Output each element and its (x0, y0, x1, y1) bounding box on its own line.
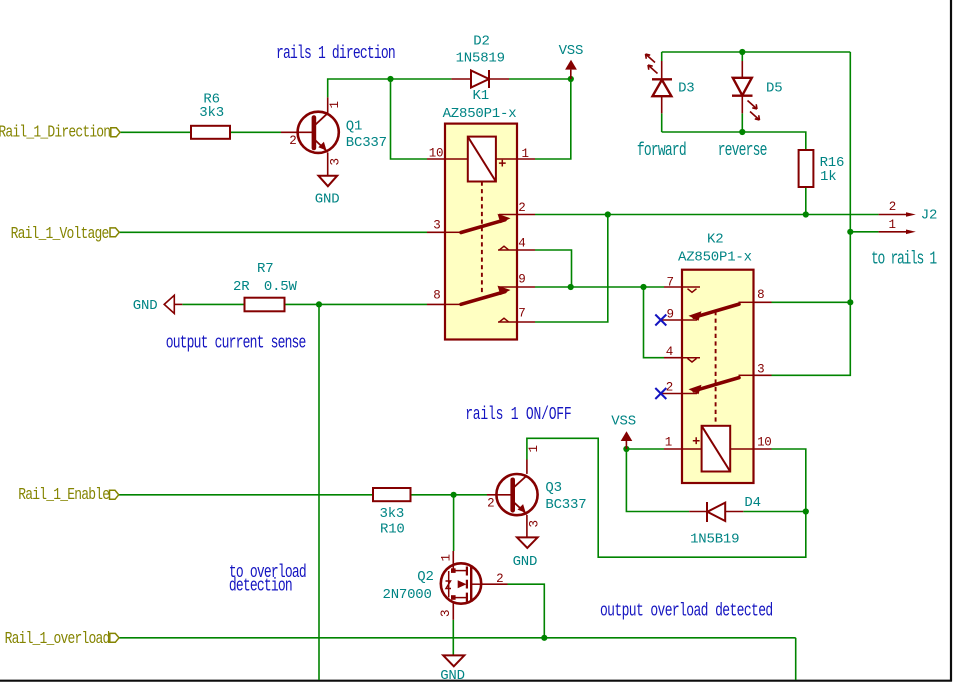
wire VSS2 node down to D4 (626, 449, 689, 512)
svg-text:3k3: 3k3 (380, 506, 405, 522)
svg-text:forward: forward (637, 140, 686, 161)
svg-text:output overload detected: output overload detected (600, 600, 773, 621)
sheet border bottom (0, 680, 952, 682)
svg-text:output current sense: output current sense (166, 332, 306, 353)
svg-text:J2: J2 (921, 208, 937, 224)
wire K1 pin9 row to K2 pin7 (535, 286, 664, 288)
svg-text:Rail_1_Voltage: Rail_1_Voltage (11, 223, 110, 243)
K2 pin stubs (664, 286, 682, 288)
global label Rail_1_Voltage (11, 223, 120, 243)
junction pin2 row at R16 (803, 211, 809, 217)
power flag VSS top (559, 43, 584, 79)
sheet border right (950, 0, 952, 682)
wire K1 pin7 up to pin2 row (535, 215, 608, 323)
connector J2 (879, 200, 938, 234)
transistor Q2 2N7000 (383, 551, 508, 620)
ground at Q3 (517, 537, 538, 548)
junction pin9 row at 643 (640, 284, 646, 290)
global label Rail_1_overload (5, 628, 119, 648)
svg-text:0.5W: 0.5W (264, 279, 298, 295)
svg-text:Q2: Q2 (417, 569, 433, 585)
svg-text:2: 2 (518, 201, 525, 215)
svg-text:D2: D2 (473, 34, 489, 50)
svg-text:to rails 1: to rails 1 (871, 249, 937, 270)
svg-text:AZ850P1-x: AZ850P1-x (678, 250, 752, 266)
wire R10 to Q3 base (411, 494, 488, 496)
junction enable node (451, 492, 457, 498)
wire Q2 source to GND (452, 620, 454, 656)
svg-text:4: 4 (518, 237, 525, 251)
svg-text:K2: K2 (707, 232, 723, 248)
svg-text:AZ850P1-x: AZ850P1-x (443, 106, 517, 122)
wire current sense down to sheet edge (318, 304, 320, 680)
wire J2 pin1 stub (850, 231, 878, 233)
svg-text:1: 1 (328, 101, 342, 108)
svg-text:Rail_1_Direction: Rail_1_Direction (0, 122, 110, 142)
svg-text:rails 1 direction: rails 1 direction (276, 43, 395, 64)
wire enable node down to Q2 drain (453, 495, 455, 551)
K1 contact pin7 (500, 318, 509, 322)
svg-text:1: 1 (522, 147, 529, 161)
svg-text:1: 1 (889, 218, 896, 232)
svg-text:3: 3 (433, 218, 440, 232)
wire Rail_1_Voltage to K1 pin3 (119, 231, 427, 233)
K1 contact pin4 (500, 246, 509, 250)
svg-text:1: 1 (665, 436, 672, 450)
junction VSS node (568, 76, 574, 82)
ground at Q2 (443, 655, 464, 666)
ground at Q1 (319, 176, 338, 187)
transistor Q3 (487, 445, 586, 537)
svg-text:4: 4 (666, 345, 673, 359)
global label Rail_1_Enable (18, 484, 118, 504)
svg-text:Rail_1_overload: Rail_1_overload (5, 628, 110, 648)
K1 inner pin lines (445, 231, 461, 233)
wire K2 pin7 node down to K2 pin4 (644, 287, 665, 358)
wire Q1 collector up and right (328, 79, 452, 97)
power flag VSS bottom (611, 413, 636, 449)
wire K1 pin4 down to pin9 row (535, 250, 572, 287)
K2 contact pin4 (688, 358, 697, 362)
no-connect X at K2 pin9 (655, 315, 666, 326)
wire K2 pin8 to right bus (772, 301, 851, 303)
LED D5 (732, 61, 782, 120)
svg-text:3: 3 (329, 158, 343, 165)
K2 contact pin7 (688, 289, 697, 293)
diode D4 (689, 495, 761, 547)
svg-text:rails 1 ON/OFF: rails 1 ON/OFF (465, 404, 571, 425)
svg-text:R7: R7 (257, 261, 273, 277)
resistor R10 (373, 488, 411, 501)
svg-text:8: 8 (433, 289, 440, 303)
svg-text:1: 1 (440, 554, 454, 561)
wire Q3 collector loop to K2 pin10 (527, 438, 806, 557)
svg-text:1N5B19: 1N5B19 (690, 532, 739, 548)
wire R16 bottom to pin2 row (805, 187, 807, 215)
wire LED bottom rail to R16 (662, 132, 806, 150)
no-connect X at K2 pin2 (655, 388, 666, 399)
transistor Q1 (281, 97, 387, 175)
wire D5 top stub (741, 52, 743, 61)
svg-text:D3: D3 (678, 80, 694, 96)
K1 mechanical dashed link (481, 182, 483, 295)
wire K2 pin10 down to D4 node (772, 449, 806, 512)
global label Rail_1_Direction (0, 122, 120, 142)
K1 coil (468, 137, 496, 182)
K2 mechanical dashed link (715, 311, 717, 426)
wire Rail_1_Direction to R6 (120, 131, 191, 133)
svg-text:GND: GND (513, 554, 538, 570)
wire D3 bottom stub (661, 113, 663, 132)
svg-text:detection: detection (229, 576, 292, 597)
svg-text:3k3: 3k3 (199, 105, 224, 121)
wire GND flag to R7 (182, 303, 244, 305)
svg-text:1: 1 (527, 445, 541, 452)
svg-text:2R: 2R (233, 279, 250, 295)
svg-text:2: 2 (889, 200, 896, 214)
wire overload down to sheet edge (795, 638, 797, 680)
K2 switch arm 2 (694, 378, 739, 391)
junction D4 node (803, 508, 809, 514)
junction pin9 row at 570 (568, 284, 574, 290)
svg-text:Rail_1_Enable: Rail_1_Enable (18, 484, 110, 504)
svg-text:2: 2 (289, 134, 296, 148)
wire K1 pin2 row to J2 pin2 (535, 214, 879, 216)
svg-text:9: 9 (666, 308, 673, 322)
relay K1 AZ850P1-x (427, 88, 535, 340)
K2 inner pin lines (682, 286, 700, 288)
svg-text:D4: D4 (744, 495, 760, 511)
svg-text:Q1: Q1 (346, 118, 362, 134)
svg-text:D5: D5 (766, 81, 782, 97)
wire D2 to VSS node (509, 78, 571, 80)
svg-text:9: 9 (518, 272, 525, 286)
svg-text:10: 10 (429, 147, 443, 161)
diode D2 (451, 34, 509, 89)
svg-text:VSS: VSS (559, 43, 584, 59)
wire right bus down to K2 pin3 (772, 52, 851, 375)
resistor R16 (799, 150, 814, 187)
svg-text:8: 8 (757, 288, 764, 302)
wire Q2 pin2 down to overload row (508, 584, 545, 638)
svg-text:reverse: reverse (718, 140, 767, 161)
svg-text:1k: 1k (820, 169, 836, 185)
wire D3 top stub (661, 52, 663, 61)
svg-text:1N5819: 1N5819 (456, 50, 505, 66)
junction overload node (541, 635, 547, 641)
svg-text:GND: GND (133, 298, 158, 314)
K1 pin stubs (427, 158, 445, 160)
junction current sense node (316, 301, 322, 307)
wire Rail_1_overload row (119, 637, 796, 639)
wire D5 bottom stub (741, 113, 743, 132)
junction right bus at J2 pin1 (847, 229, 853, 235)
svg-text:BC337: BC337 (346, 135, 387, 151)
wire D4 to right loop (743, 511, 806, 513)
svg-text:3: 3 (528, 520, 542, 527)
junction pin2 row at 607 (605, 211, 611, 217)
svg-text:BC337: BC337 (545, 497, 586, 513)
svg-text:3: 3 (757, 362, 764, 376)
junction VSS2 node (623, 446, 629, 452)
svg-text:Q3: Q3 (545, 480, 561, 496)
svg-text:2: 2 (487, 496, 494, 510)
svg-text:7: 7 (666, 275, 673, 289)
resistor R6 (191, 126, 230, 139)
junction LED top at D5 (739, 49, 745, 55)
wire VSS2 node to K2 pin1 (626, 448, 664, 450)
wire R7 to K1 pin8 (285, 303, 427, 305)
svg-text:10: 10 (757, 436, 771, 450)
svg-text:2: 2 (666, 380, 673, 394)
svg-text:3: 3 (439, 610, 453, 617)
wire VSS node down to K1 pin1 (535, 79, 571, 159)
K2 coil (702, 426, 731, 472)
K2 switch arm 1 (694, 304, 739, 317)
svg-text:GND: GND (440, 668, 465, 684)
wire node collector to K1 pin10 (391, 79, 428, 159)
svg-text:2N7000: 2N7000 (383, 587, 432, 603)
svg-text:R10: R10 (380, 522, 405, 538)
K1 switch arm 2 (461, 292, 505, 305)
LED D3 (646, 54, 695, 113)
junction right bus at K2 pin8 (847, 299, 853, 305)
wire LED top rail (662, 51, 851, 53)
relay K2 AZ850P1-x (655, 232, 771, 483)
resistor R7 (245, 298, 285, 312)
svg-text:7: 7 (518, 307, 525, 321)
svg-text:VSS: VSS (611, 413, 636, 429)
svg-text:GND: GND (315, 192, 340, 208)
svg-text:2: 2 (496, 572, 503, 586)
wire Rail_1_Enable to R10 (119, 494, 373, 496)
K1 switch arm 1 (461, 220, 505, 233)
wire R6 to Q1 base (230, 131, 281, 133)
junction LED bottom at D5 (739, 129, 745, 135)
ground flag at R7 (133, 295, 183, 314)
svg-text:K1: K1 (473, 88, 489, 104)
junction collector node (387, 76, 393, 82)
